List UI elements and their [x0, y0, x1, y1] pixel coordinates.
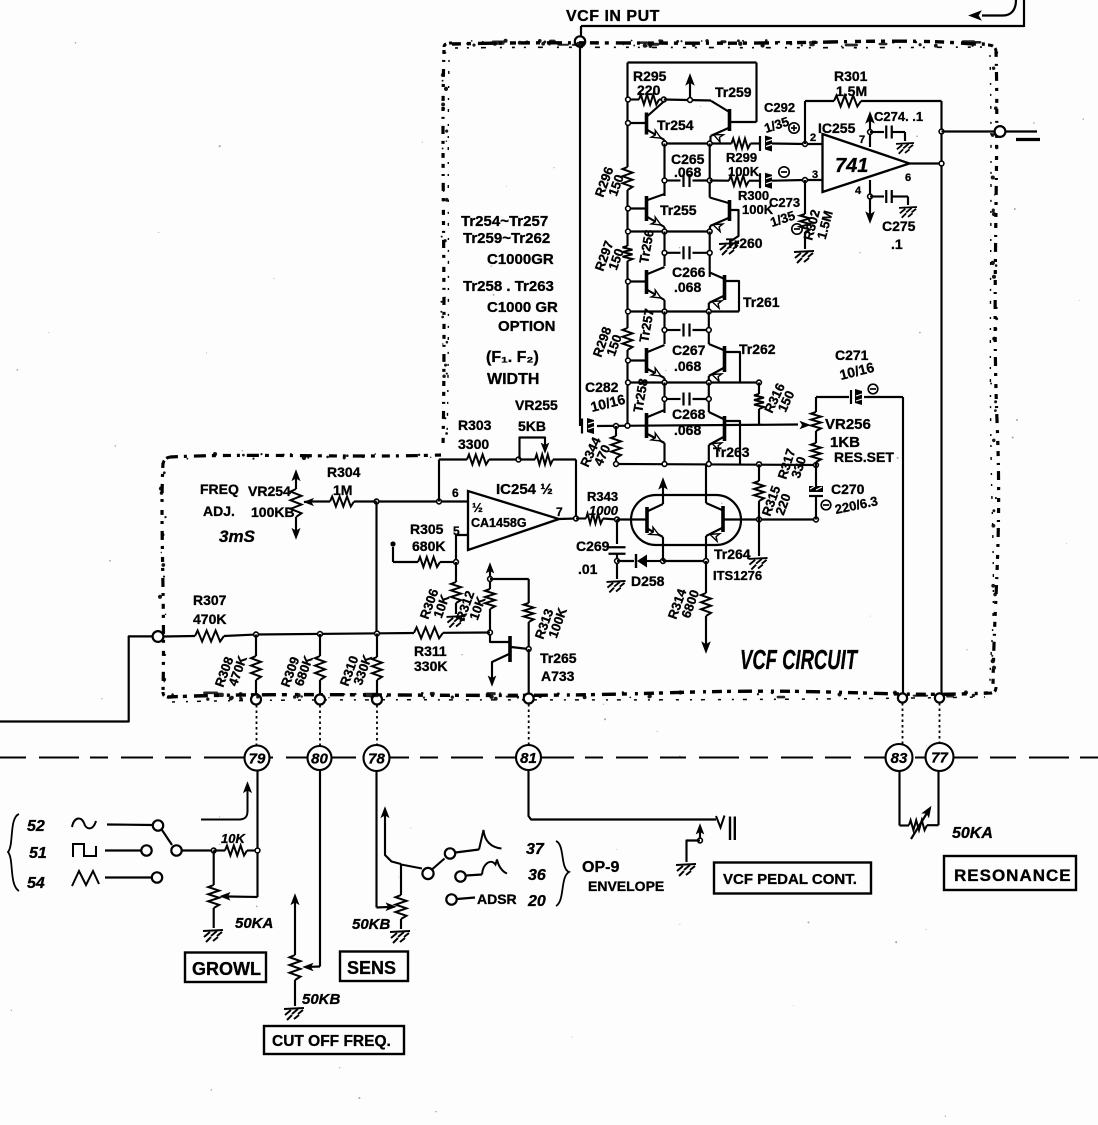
node terminal above 77 — [935, 693, 944, 702]
wire row C265 to R300 — [710, 179, 729, 181]
svg-text:7: 7 — [859, 134, 865, 146]
wire C269 to ground — [616, 561, 618, 579]
resistor R301 — [805, 100, 834, 102]
wire cap columns row4 — [663, 312, 665, 345]
output continuation dash — [1016, 138, 1040, 141]
node VCF output terminal — [995, 126, 1006, 137]
svg-text:5KB: 5KB — [518, 418, 546, 434]
resistor R306 — [455, 562, 457, 582]
resistor R300 — [729, 176, 749, 186]
switch blade growl — [162, 830, 172, 845]
svg-text:330K: 330K — [414, 658, 447, 674]
wire 54 to contact — [105, 876, 151, 878]
wire IC254 pin6 input — [377, 500, 469, 502]
svg-text:VR256: VR256 — [825, 416, 871, 433]
svg-text:50KB: 50KB — [302, 991, 341, 1008]
wire Tr264 emitter bus — [663, 560, 706, 562]
rheostat 50KA resonance — [900, 824, 910, 826]
connector 79 — [245, 746, 270, 771]
waveform sine glyph — [72, 818, 96, 828]
switch blade envelope — [433, 859, 445, 870]
wire resistor bank bus — [256, 633, 414, 635]
svg-text:ADSR: ADSR — [477, 891, 517, 907]
ground C275 — [899, 207, 917, 218]
ground R302 — [794, 251, 814, 263]
transistor Tr262 — [723, 346, 727, 372]
resistor R297 (rail) — [623, 246, 633, 261]
potentiometer 50KA growl — [213, 851, 215, 886]
wire left entry — [0, 636, 152, 721]
ground C274 — [896, 143, 914, 154]
transistor Tr254 — [645, 113, 649, 135]
svg-text:78: 78 — [368, 751, 385, 768]
resistor R315 — [758, 464, 760, 481]
wire IC255 pin7 supply — [869, 118, 871, 147]
waveform square glyph — [73, 844, 96, 857]
wire dotted drop terminal to 83 — [902, 703, 904, 744]
svg-text:R343: R343 — [587, 489, 618, 504]
svg-text:A733: A733 — [541, 668, 575, 684]
svg-text:220: 220 — [637, 82, 661, 98]
node switch contact 51 — [141, 845, 151, 855]
svg-text:100KB: 100KB — [251, 504, 295, 520]
arrow jack tip — [699, 829, 701, 841]
waveform triangle glyph — [72, 871, 99, 886]
op-amp IC254 half CA1458G — [468, 491, 559, 550]
svg-text:20: 20 — [527, 893, 546, 910]
wire 81 to jack — [529, 770, 717, 820]
svg-text:ITS1276: ITS1276 — [713, 568, 762, 583]
wire VCF input vertical drop — [579, 47, 581, 426]
capacitor C267 — [665, 329, 681, 331]
svg-text:C1000GR: C1000GR — [487, 251, 554, 268]
node terminal left border — [153, 631, 164, 642]
svg-text:R305: R305 — [410, 521, 444, 537]
resistor R313 — [528, 579, 530, 603]
capacitor C274 — [870, 131, 884, 133]
wire return arrow top right — [982, 0, 1016, 16]
wire dotted drop terminal to 77 — [939, 703, 941, 743]
node ADSR switch common — [422, 868, 433, 879]
resistor R309 — [319, 634, 321, 656]
wire row4 bus — [628, 381, 760, 383]
brace envelope — [556, 841, 569, 906]
svg-text:Tr258 . Tr263: Tr258 . Tr263 — [463, 278, 554, 295]
resistor R308 — [255, 635, 257, 657]
wire R315 node to ground — [758, 520, 760, 557]
wire VCF input top line — [581, 25, 1024, 27]
wire to IC255 pin3 — [805, 179, 823, 181]
connector 83 — [886, 744, 913, 771]
arrow into 78 — [385, 813, 401, 864]
ground R306 — [447, 616, 466, 627]
resistor R343 — [559, 517, 576, 520]
wire 51 to contact — [105, 849, 141, 851]
svg-text:D258: D258 — [631, 573, 665, 589]
arrow into 79 — [201, 789, 248, 820]
svg-text:RESONANCE: RESONANCE — [954, 866, 1072, 885]
capacitor C275 — [870, 195, 884, 197]
wire ladder top bus — [628, 61, 757, 63]
node terminal R310 — [372, 695, 382, 705]
waveform ASR glyph — [482, 860, 507, 875]
wire 79 to 10K node — [256, 771, 258, 898]
main circuit box border (sketchy) — [452, 41, 988, 44]
svg-text:7: 7 — [556, 505, 563, 519]
node terminal R308 — [251, 695, 261, 705]
jack sleeve — [729, 817, 731, 841]
resistor R296 (rail) — [623, 167, 633, 190]
svg-text:Tr261: Tr261 — [743, 294, 780, 310]
wire wiper sens — [377, 906, 389, 909]
ground under Tr264 right base — [749, 558, 768, 569]
svg-text:Tr259~Tr262: Tr259~Tr262 — [463, 230, 550, 247]
node contact ADSR — [446, 894, 456, 904]
resistor R298 (rail) — [623, 328, 633, 350]
svg-text:81: 81 — [520, 750, 537, 767]
wire 83 down — [898, 771, 900, 826]
jack tip contact — [716, 816, 725, 828]
node terminal above 83 — [898, 693, 907, 702]
svg-text:Tr262: Tr262 — [739, 341, 776, 357]
svg-text:3: 3 — [812, 169, 818, 181]
svg-text:C269: C269 — [576, 538, 610, 554]
svg-text:1.5M: 1.5M — [836, 83, 867, 99]
svg-text:52: 52 — [27, 818, 45, 835]
wire dotted drop terminal to 81 — [528, 704, 530, 745]
potentiometer 50KB sens — [400, 865, 402, 896]
wire contact 37 — [456, 850, 480, 853]
svg-text:79: 79 — [249, 751, 266, 768]
transistor Tr263 — [723, 416, 727, 441]
svg-text:WIDTH: WIDTH — [487, 371, 539, 388]
node VCF input terminal on border — [575, 36, 585, 46]
svg-text:Tr263: Tr263 — [713, 444, 750, 460]
potentiometer VR254 100KB — [292, 470, 300, 480]
svg-text:VCF PEDAL CONT.: VCF PEDAL CONT. — [723, 871, 857, 888]
svg-text:1M: 1M — [333, 482, 352, 498]
wire VR254 node down to R310 — [375, 502, 377, 634]
wire feedback mid — [489, 458, 535, 460]
wire R307 row — [164, 635, 196, 638]
wire ladder left rail — [626, 63, 628, 168]
resistor R302 — [804, 180, 806, 214]
ground C269 — [607, 581, 626, 592]
svg-text:CA1458G: CA1458G — [471, 516, 527, 530]
resistor R317 — [811, 443, 821, 462]
wire dotted drop terminal to 80 — [319, 705, 321, 746]
connector 77 — [926, 743, 954, 771]
transistor Tr260 — [728, 200, 732, 221]
svg-text:3300: 3300 — [458, 436, 489, 452]
wire Tr259 base drop — [755, 63, 757, 123]
resistor R304 — [312, 500, 330, 502]
wire C271 rail to terminal 83 — [902, 397, 904, 694]
wire switch common to 10K — [182, 849, 214, 851]
svg-text:37: 37 — [526, 841, 545, 858]
svg-text:C273: C273 — [769, 195, 800, 210]
diode D258 — [617, 560, 634, 562]
box RESONANCE — [944, 856, 1076, 890]
wire IC254 pin5 — [456, 535, 468, 562]
wire jack ground leg — [687, 841, 701, 863]
svg-text:R300: R300 — [738, 188, 769, 203]
wire Tr260 base to ground — [731, 210, 739, 241]
svg-text:Tr265: Tr265 — [540, 650, 577, 666]
resistor R314 — [705, 561, 707, 593]
svg-text:(F₁. F₂): (F₁. F₂) — [486, 349, 539, 366]
svg-text:VCF CIRCUIT: VCF CIRCUIT — [740, 645, 859, 676]
ground 50KB cutoff — [284, 1008, 304, 1020]
wire row2 bus — [628, 230, 711, 232]
svg-text:36: 36 — [528, 867, 546, 884]
svg-text:GROWL: GROWL — [192, 959, 261, 979]
dual transistor Tr264 outline — [631, 495, 741, 545]
svg-text:SENS: SENS — [347, 958, 396, 978]
wire row5 emitter bus — [616, 464, 816, 465]
svg-text:6: 6 — [452, 486, 459, 500]
svg-text:FREQ: FREQ — [200, 481, 239, 497]
svg-text:1000: 1000 — [589, 503, 619, 518]
wire contact ADSR — [457, 898, 475, 900]
svg-text:50KB: 50KB — [352, 916, 391, 933]
svg-text:R307: R307 — [193, 592, 227, 608]
svg-text:R304: R304 — [327, 464, 361, 480]
node switch contact 54 — [152, 872, 162, 882]
svg-text:.1: .1 — [891, 236, 903, 252]
resistor R316 — [758, 383, 760, 395]
wire contact 36 — [466, 875, 482, 876]
node terminal R309 — [315, 695, 325, 705]
transistor Tr261 — [723, 275, 727, 300]
svg-text:C267: C267 — [672, 342, 706, 358]
wire row3 bus — [628, 310, 740, 312]
svg-text:680K: 680K — [412, 538, 445, 554]
svg-text:RES.SET: RES.SET — [834, 449, 894, 465]
box VCF PEDAL CONT — [714, 863, 871, 894]
ground 50KA growl — [203, 930, 223, 942]
resistor R307 — [195, 631, 224, 642]
svg-text:6: 6 — [905, 172, 911, 184]
svg-text:VR255: VR255 — [515, 397, 558, 413]
resistor R305 — [440, 561, 456, 563]
capacitor C271 (electrolytic) — [816, 396, 849, 398]
svg-text:77: 77 — [931, 750, 948, 767]
wire main dashed bus line — [0, 757, 1098, 759]
wire cap column right row3 — [709, 232, 711, 278]
wire IC255 pin4 — [869, 180, 871, 216]
wire 52 to contact — [107, 823, 152, 826]
transistor Tr255 — [645, 196, 649, 221]
box SENS — [340, 952, 408, 982]
svg-text:C292: C292 — [764, 100, 795, 115]
svg-text:.068: .068 — [674, 358, 701, 374]
node switch common — [171, 845, 181, 855]
potentiometer VR255 5KB — [535, 455, 553, 465]
resistor R295 — [628, 98, 640, 100]
op-amp IC255 741 — [823, 134, 910, 192]
wire 77 down — [937, 771, 939, 825]
svg-text:C275: C275 — [882, 218, 916, 234]
svg-text:4: 4 — [855, 185, 862, 197]
wire output rail right — [940, 101, 942, 693]
wire 78 down — [375, 771, 377, 908]
capacitor C270 (electrolytic) — [815, 465, 817, 486]
transistor Tr259 — [728, 109, 732, 131]
svg-text:50KA: 50KA — [952, 825, 993, 842]
wire IC255 output — [910, 162, 942, 164]
svg-text:CUT OFF FREQ.: CUT OFF FREQ. — [272, 1033, 391, 1050]
ground Tr260 base — [719, 243, 739, 255]
potentiometer 50KB cutoff — [291, 894, 299, 904]
svg-text:83: 83 — [891, 750, 908, 767]
potentiometer VR256 1KB — [815, 397, 817, 412]
capacitor C292 (electrolytic) — [759, 136, 761, 151]
svg-text:C268: C268 — [672, 406, 706, 422]
ground 50KB sens — [390, 931, 410, 943]
connector 78 — [364, 745, 390, 771]
svg-text:OPTION: OPTION — [498, 318, 556, 335]
ground pedal jack — [676, 864, 696, 876]
waveform AR pulse glyph — [479, 830, 502, 850]
svg-text:½: ½ — [472, 500, 483, 515]
resistor R310 — [376, 634, 378, 658]
transistor Tr265 A733 — [508, 636, 512, 662]
svg-text:C270: C270 — [831, 481, 865, 497]
resistor R299 — [732, 139, 751, 149]
svg-text:3mS: 3mS — [219, 527, 256, 546]
box CUT OFF FREQ — [264, 1026, 404, 1054]
resistor R311 — [414, 627, 443, 638]
capacitor C265 — [665, 179, 681, 181]
wire row5 base bus — [597, 425, 798, 427]
wire Tr263 base leg — [726, 421, 741, 464]
svg-text:C1000 GR: C1000 GR — [487, 299, 558, 316]
capacitor C268 — [665, 398, 681, 400]
wire output to terminal — [942, 130, 995, 132]
supply arrow row1 — [689, 80, 691, 100]
svg-text:.01: .01 — [578, 561, 598, 577]
svg-text:.068: .068 — [674, 279, 701, 295]
svg-text:Tr254: Tr254 — [657, 117, 694, 133]
capacitor C273 (electrolytic) — [759, 173, 761, 188]
svg-text:2: 2 — [810, 132, 816, 144]
svg-text:C266: C266 — [672, 264, 706, 280]
svg-text:80: 80 — [311, 751, 328, 768]
wire Tr262 base leg — [726, 352, 741, 383]
wire cap columns row5 — [663, 383, 665, 414]
svg-text:ADJ.: ADJ. — [203, 503, 235, 519]
wire feedback right leg — [575, 460, 577, 519]
capacitor C269 — [616, 520, 618, 545]
svg-text:OP-9: OP-9 — [582, 859, 619, 876]
svg-text:VR254: VR254 — [248, 483, 291, 499]
connector 81 — [516, 745, 541, 770]
transistor Tr264 left half — [645, 507, 649, 533]
wire R312 top to R313 — [490, 578, 529, 580]
wire sens top to ADSR common — [401, 865, 422, 869]
wire row1 emitter bus — [665, 142, 732, 144]
svg-text:Tr264: Tr264 — [714, 546, 751, 562]
wire wiper cutoff — [311, 965, 320, 967]
svg-text:50KA: 50KA — [235, 915, 273, 932]
svg-text:R299: R299 — [726, 150, 757, 165]
svg-text:Tr254~Tr257: Tr254~Tr257 — [461, 213, 548, 230]
svg-text:54: 54 — [27, 875, 45, 892]
wire output stub — [1006, 130, 1038, 132]
brace waveform inputs — [8, 814, 19, 891]
transistor Tr258 — [645, 413, 649, 438]
wire wiper 50KA growl — [228, 895, 258, 898]
svg-text:C274. .1: C274. .1 — [874, 109, 923, 124]
svg-text:Tr255: Tr255 — [660, 202, 697, 218]
svg-text:IC255: IC255 — [818, 120, 856, 136]
svg-text:IC254 ½: IC254 ½ — [496, 481, 553, 498]
wire feedback loop left — [438, 460, 440, 502]
resistor R312 — [486, 563, 494, 573]
capacitor C282 (electrolytic) — [581, 419, 583, 434]
svg-text:470K: 470K — [193, 611, 226, 627]
transistor Tr257 — [645, 348, 649, 373]
svg-text:Tr259: Tr259 — [715, 84, 752, 100]
wire dotted drop terminal to 78 — [376, 705, 378, 745]
node contact 37 — [445, 848, 455, 858]
resistor 10K growl — [214, 849, 225, 851]
wire Tr265 collector to terminal 81 — [528, 649, 530, 694]
wire Tr261 base leg — [726, 281, 740, 312]
border smudge speckle (decorative) — [158, 39, 998, 701]
svg-text:10K: 10K — [221, 831, 246, 846]
box GROWL — [185, 953, 266, 983]
transistor Tr264 right half — [721, 506, 725, 532]
svg-text:51: 51 — [29, 845, 47, 862]
transistor Tr256 — [645, 270, 649, 294]
svg-text:R301: R301 — [834, 68, 868, 84]
svg-text:R311: R311 — [414, 643, 447, 659]
node contact 36 — [455, 871, 465, 881]
resistor R344 — [614, 424, 619, 429]
svg-text:VCF IN PUT: VCF IN PUT — [566, 8, 660, 25]
wire row1 collector bus — [664, 100, 711, 101]
node switch contact 52 — [153, 820, 163, 830]
node terminal above 81 — [524, 694, 534, 704]
wire cap column left x664 — [663, 144, 665, 197]
wire dotted drop terminal to 79 — [256, 705, 258, 745]
wire to IC255 pin2 — [805, 143, 823, 145]
resistor R303 — [467, 455, 489, 465]
wire 80 down — [319, 771, 321, 967]
wire cap column left row3 — [663, 232, 665, 267]
connector 80 — [308, 746, 332, 770]
wire cap column right x709 — [709, 144, 711, 198]
svg-text:R303: R303 — [458, 417, 492, 433]
capacitor C266 — [665, 252, 681, 254]
svg-text:ENVELOPE: ENVELOPE — [588, 878, 664, 894]
svg-text:741: 741 — [835, 155, 868, 177]
svg-text:.068: .068 — [674, 164, 701, 180]
